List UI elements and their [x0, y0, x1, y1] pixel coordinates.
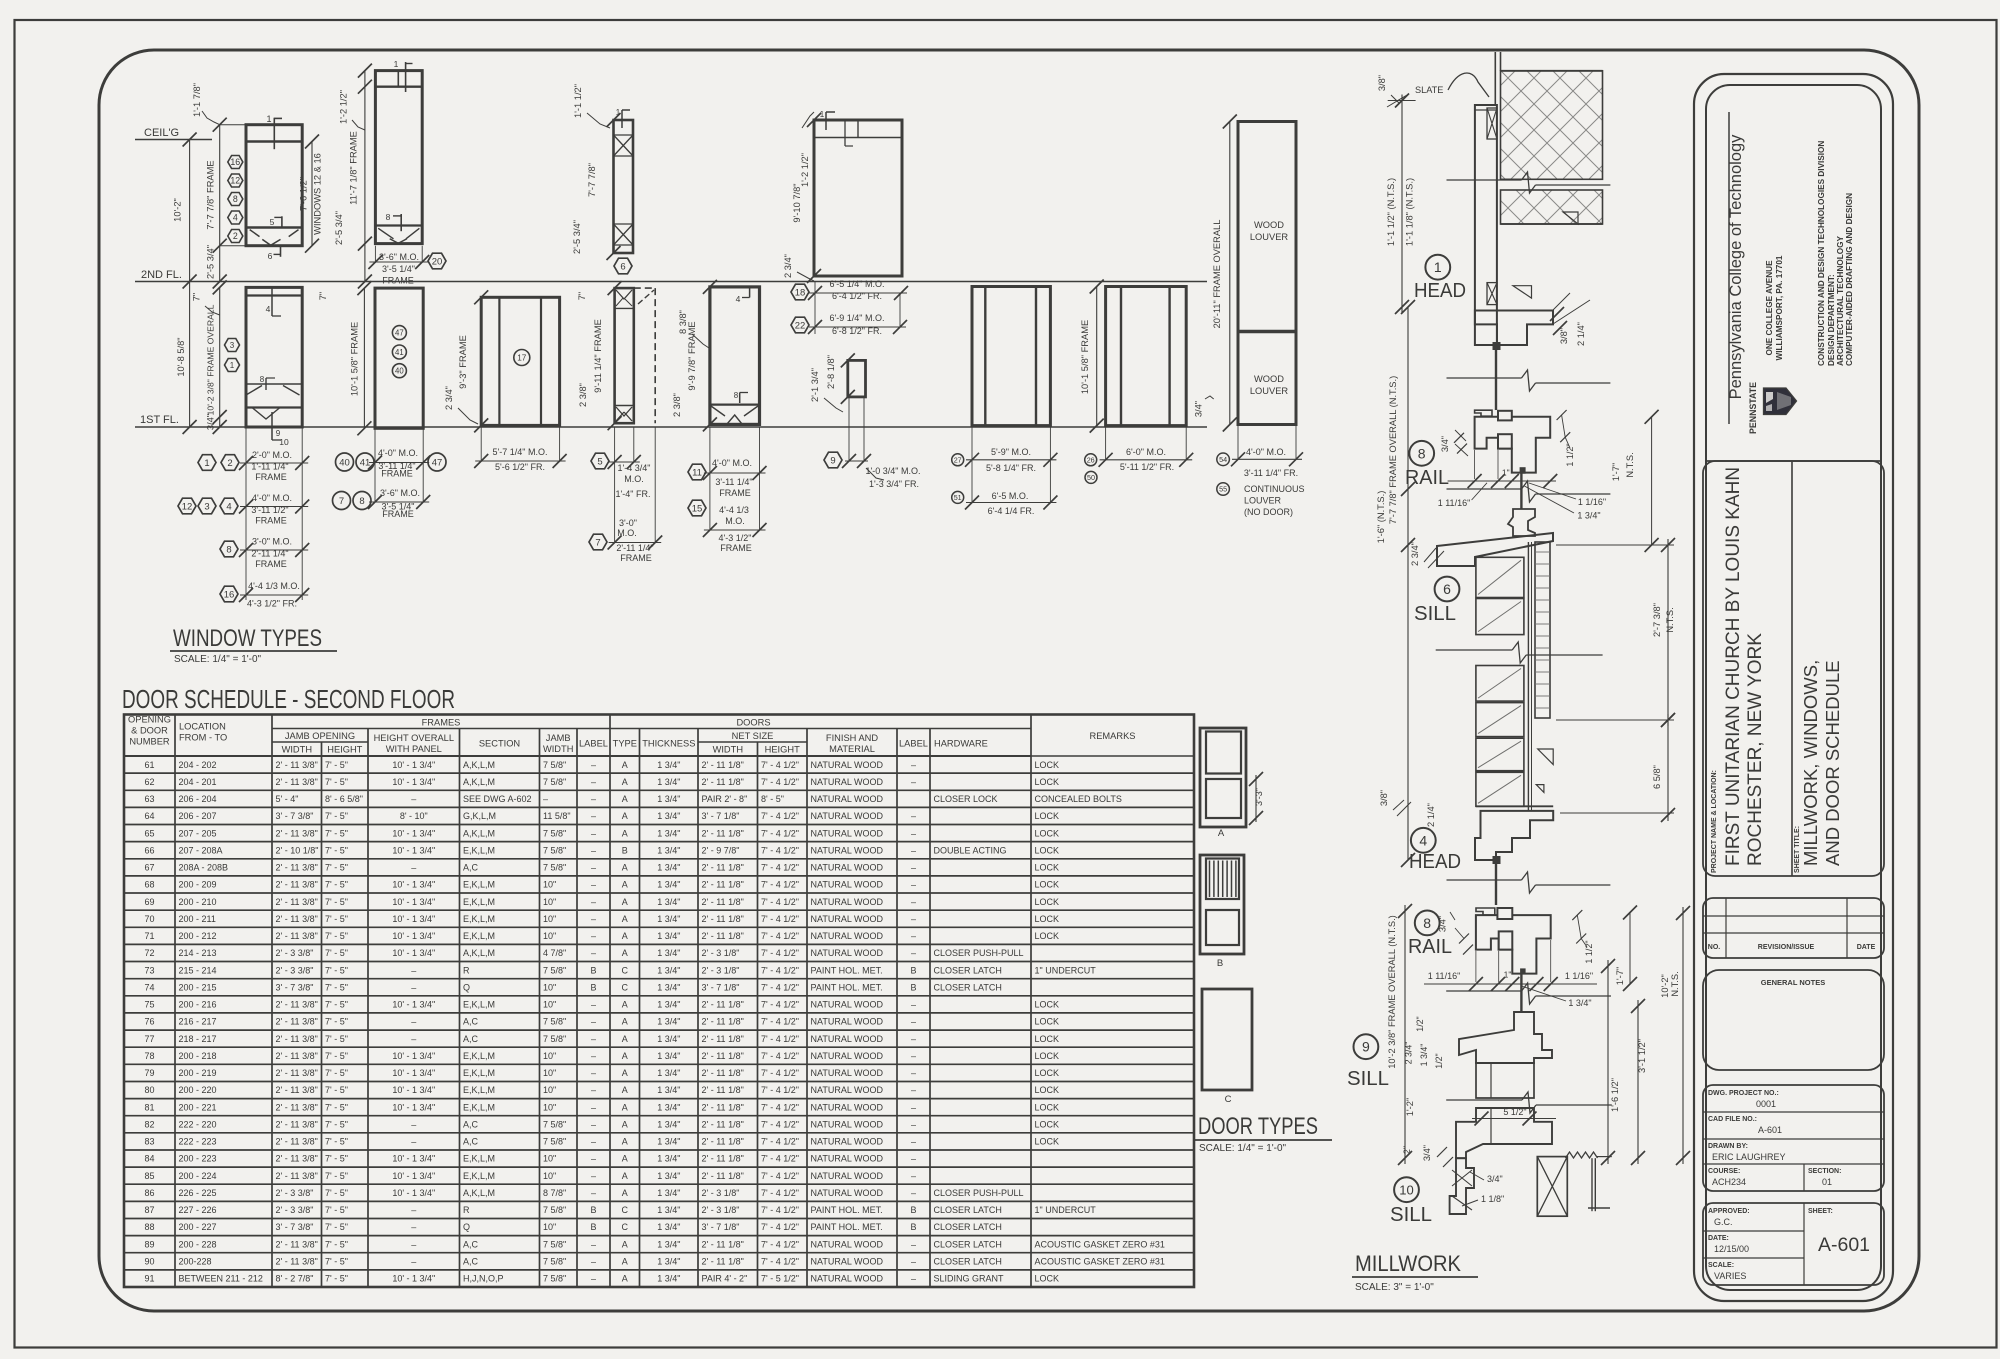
svg-text:2' - 11 3/8": 2' - 11 3/8" [276, 1154, 318, 1164]
svg-text:200-228: 200-228 [179, 1257, 212, 1267]
svg-text:1 3/4": 1 3/4" [657, 1051, 680, 1061]
svg-text:2' - 11 1/8": 2' - 11 1/8" [702, 777, 744, 787]
svg-text:APPROVED:: APPROVED: [1708, 1208, 1750, 1215]
svg-text:E,K,L,M: E,K,L,M [463, 880, 495, 890]
svg-text:–: – [411, 863, 416, 873]
svg-text:CONSTRUCTION AND DESIGN TECHNO: CONSTRUCTION AND DESIGN TECHNOLOGIES DIV… [1817, 141, 1826, 366]
svg-text:B: B [590, 1222, 596, 1232]
svg-text:77: 77 [144, 1034, 154, 1044]
svg-text:4'-0" M.O.: 4'-0" M.O. [252, 493, 292, 503]
svg-text:2'-11 1/4": 2'-11 1/4" [616, 543, 653, 553]
svg-text:FROM - TO: FROM - TO [179, 733, 227, 743]
svg-text:1'-2 1/2": 1'-2 1/2" [339, 90, 349, 124]
svg-text:–: – [591, 863, 596, 873]
svg-text:2' - 11 1/8": 2' - 11 1/8" [702, 1068, 744, 1078]
svg-text:6'-0" M.O.: 6'-0" M.O. [1126, 447, 1166, 457]
svg-text:2' - 11 3/8": 2' - 11 3/8" [276, 1017, 318, 1027]
svg-text:9'-11 1/4" FRAME: 9'-11 1/4" FRAME [593, 319, 603, 393]
svg-text:10' - 1 3/4": 10' - 1 3/4" [392, 845, 435, 855]
svg-text:PAINT HOL. MET.: PAINT HOL. MET. [811, 965, 883, 975]
svg-text:A,C: A,C [463, 1120, 479, 1130]
svg-text:3: 3 [230, 341, 235, 350]
svg-text:2' - 10 1/8": 2' - 10 1/8" [276, 845, 319, 855]
svg-text:1 3/4": 1 3/4" [657, 777, 680, 787]
svg-text:8: 8 [734, 391, 739, 400]
svg-text:16: 16 [224, 589, 235, 600]
svg-text:LOCK: LOCK [1035, 1120, 1060, 1130]
svg-text:ACOUSTIC GASKET ZERO #31: ACOUSTIC GASKET ZERO #31 [1035, 1257, 1165, 1267]
svg-text:7' - 5": 7' - 5" [325, 777, 348, 787]
svg-text:NATURAL WOOD: NATURAL WOOD [811, 1274, 884, 1284]
svg-text:–: – [591, 811, 596, 821]
svg-text:N.T.S.: N.T.S. [1665, 607, 1675, 632]
svg-text:3/8": 3/8" [1377, 75, 1387, 91]
svg-text:8: 8 [1423, 915, 1431, 931]
svg-text:10: 10 [279, 437, 289, 447]
svg-text:HEIGHT: HEIGHT [327, 745, 362, 755]
svg-text:A: A [622, 1257, 628, 1267]
svg-text:2' - 11 3/8": 2' - 11 3/8" [276, 1051, 318, 1061]
svg-text:N.T.S.: N.T.S. [1670, 971, 1680, 996]
svg-text:1" UNDERCUT: 1" UNDERCUT [1035, 1205, 1097, 1215]
svg-text:5'-11 1/2" FR.: 5'-11 1/2" FR. [1120, 462, 1174, 472]
svg-text:2' - 11 3/8": 2' - 11 3/8" [276, 1000, 318, 1010]
svg-text:4: 4 [1419, 832, 1427, 848]
svg-text:2' - 11 1/8": 2' - 11 1/8" [702, 1051, 744, 1061]
svg-text:1 3/4": 1 3/4" [657, 1120, 680, 1130]
svg-text:NATURAL WOOD: NATURAL WOOD [811, 897, 884, 907]
svg-text:2' - 11 1/8": 2' - 11 1/8" [702, 863, 744, 873]
svg-text:62: 62 [144, 777, 154, 787]
svg-text:B: B [910, 1205, 916, 1215]
svg-text:A: A [622, 1171, 628, 1181]
svg-text:7' - 5": 7' - 5" [325, 1239, 348, 1249]
svg-text:A-601: A-601 [1818, 1234, 1870, 1256]
svg-text:10' - 1 3/4": 10' - 1 3/4" [392, 931, 435, 941]
svg-text:–: – [911, 1239, 916, 1249]
svg-text:WIDTH: WIDTH [543, 744, 573, 754]
svg-text:16: 16 [230, 157, 240, 167]
svg-text:A: A [622, 794, 628, 804]
svg-text:–: – [911, 1274, 916, 1284]
svg-text:2 3/4": 2 3/4" [1410, 542, 1420, 566]
svg-text:10' - 1 3/4": 10' - 1 3/4" [392, 880, 435, 890]
svg-text:2' - 11 1/8": 2' - 11 1/8" [702, 1257, 744, 1267]
svg-text:8: 8 [260, 375, 265, 384]
svg-text:7' - 4 1/2": 7' - 4 1/2" [761, 1120, 799, 1130]
svg-text:6: 6 [620, 261, 625, 272]
svg-text:LOCK: LOCK [1035, 760, 1060, 770]
svg-text:20'-11" FRAME OVERALL: 20'-11" FRAME OVERALL [1212, 220, 1222, 329]
svg-text:7 5/8": 7 5/8" [543, 1137, 566, 1147]
svg-text:64: 64 [144, 811, 154, 821]
svg-text:C: C [1225, 1094, 1232, 1105]
svg-text:C: C [622, 965, 629, 975]
svg-text:RAIL: RAIL [1408, 936, 1452, 958]
svg-text:3/4": 3/4" [1487, 1174, 1503, 1184]
svg-text:7' - 4 1/2": 7' - 4 1/2" [761, 1137, 799, 1147]
svg-text:7' - 4 1/2": 7' - 4 1/2" [761, 1085, 799, 1095]
svg-text:NATURAL WOOD: NATURAL WOOD [811, 863, 884, 873]
svg-text:208A - 208B: 208A - 208B [179, 863, 229, 873]
svg-text:6: 6 [1443, 581, 1451, 597]
svg-text:FRAME: FRAME [382, 509, 414, 519]
svg-text:67: 67 [144, 863, 154, 873]
svg-text:5 1/2": 5 1/2" [1503, 1107, 1526, 1117]
svg-text:2'-8 1/8": 2'-8 1/8" [826, 355, 836, 389]
svg-text:–: – [591, 1000, 596, 1010]
svg-text:VARIES: VARIES [1714, 1271, 1746, 1281]
svg-text:2'-1 3/4": 2'-1 3/4" [810, 368, 820, 402]
svg-text:7 5/8": 7 5/8" [543, 845, 566, 855]
svg-text:3/4": 3/4" [1438, 916, 1448, 932]
svg-text:NO.: NO. [1708, 944, 1721, 951]
svg-text:7' - 5": 7' - 5" [325, 931, 348, 941]
svg-text:10'-8 5/8": 10'-8 5/8" [176, 337, 186, 376]
svg-text:LOCK: LOCK [1035, 880, 1060, 890]
svg-text:–: – [591, 1257, 596, 1267]
svg-text:1 3/4": 1 3/4" [657, 880, 680, 890]
svg-text:2' - 11 1/8": 2' - 11 1/8" [702, 1085, 744, 1095]
svg-text:FINISH AND: FINISH AND [826, 733, 878, 743]
svg-text:DRAWN BY:: DRAWN BY: [1708, 1143, 1748, 1150]
svg-text:7 5/8": 7 5/8" [543, 760, 566, 770]
svg-text:2' - 11 3/8": 2' - 11 3/8" [276, 1120, 318, 1130]
svg-text:–: – [591, 1274, 596, 1284]
svg-text:2' - 11 1/8": 2' - 11 1/8" [702, 1017, 744, 1027]
svg-text:NATURAL WOOD: NATURAL WOOD [811, 914, 884, 924]
svg-text:63: 63 [144, 794, 154, 804]
svg-text:0001: 0001 [1756, 1099, 1776, 1109]
svg-text:–: – [411, 982, 416, 992]
svg-text:5: 5 [270, 217, 275, 227]
svg-text:NATURAL WOOD: NATURAL WOOD [811, 777, 884, 787]
svg-text:7' - 5": 7' - 5" [325, 760, 348, 770]
svg-text:7' - 4 1/2": 7' - 4 1/2" [761, 897, 799, 907]
svg-text:1'-2": 1'-2" [1405, 1098, 1415, 1117]
svg-text:89: 89 [144, 1239, 154, 1249]
svg-text:A: A [622, 880, 628, 890]
svg-text:1 3/4": 1 3/4" [657, 1068, 680, 1078]
svg-text:E,K,L,M: E,K,L,M [463, 1154, 495, 1164]
svg-text:Q: Q [463, 982, 470, 992]
svg-text:FRAME: FRAME [620, 553, 652, 563]
svg-text:8' - 10": 8' - 10" [400, 811, 428, 821]
svg-text:10' - 1 3/4": 10' - 1 3/4" [392, 828, 435, 838]
svg-text:5'-7 1/4" M.O.: 5'-7 1/4" M.O. [493, 447, 548, 457]
svg-text:2' - 11 3/8": 2' - 11 3/8" [276, 863, 318, 873]
svg-text:1 1/2": 1 1/2" [1584, 940, 1594, 963]
svg-text:204 - 202: 204 - 202 [179, 760, 217, 770]
svg-text:9: 9 [830, 455, 835, 466]
svg-text:8: 8 [233, 194, 238, 204]
svg-text:1 3/4": 1 3/4" [657, 845, 680, 855]
svg-text:7 5/8": 7 5/8" [543, 1205, 566, 1215]
svg-text:A,K,L,M: A,K,L,M [463, 948, 495, 958]
svg-text:–: – [911, 1000, 916, 1010]
svg-text:7": 7" [577, 292, 587, 300]
svg-text:78: 78 [144, 1051, 154, 1061]
svg-text:10' - 1 3/4": 10' - 1 3/4" [392, 1051, 435, 1061]
svg-text:86: 86 [144, 1188, 154, 1198]
svg-text:DESIGN DEPARTMENT:: DESIGN DEPARTMENT: [1827, 274, 1836, 366]
svg-text:227 - 226: 227 - 226 [179, 1205, 217, 1215]
svg-text:–: – [911, 777, 916, 787]
svg-text:PAINT HOL. MET.: PAINT HOL. MET. [811, 982, 883, 992]
svg-text:–: – [543, 794, 548, 804]
svg-text:–: – [911, 1017, 916, 1027]
svg-text:7' - 4 1/2": 7' - 4 1/2" [761, 1239, 799, 1249]
svg-text:1'-1 1/2" (N.T.S.): 1'-1 1/2" (N.T.S.) [1386, 178, 1396, 246]
svg-text:A,C: A,C [463, 1017, 479, 1027]
svg-text:7' - 5": 7' - 5" [325, 1274, 348, 1284]
svg-text:WIDTH: WIDTH [282, 745, 312, 755]
svg-text:7' - 5": 7' - 5" [325, 1222, 348, 1232]
svg-text:E,K,L,M: E,K,L,M [463, 897, 495, 907]
svg-text:2 3/8": 2 3/8" [578, 383, 588, 407]
svg-text:7' - 5": 7' - 5" [325, 1120, 348, 1130]
svg-text:4'-3 1/2" FR.: 4'-3 1/2" FR. [247, 599, 297, 609]
svg-text:1: 1 [1434, 259, 1442, 275]
svg-text:A: A [622, 811, 628, 821]
svg-text:A: A [622, 931, 628, 941]
svg-text:47: 47 [432, 457, 443, 468]
svg-text:68: 68 [144, 880, 154, 890]
svg-text:A,C: A,C [463, 1034, 479, 1044]
svg-text:–: – [591, 1171, 596, 1181]
svg-text:–: – [911, 1068, 916, 1078]
svg-text:A: A [622, 1085, 628, 1095]
svg-text:1'-11 1/4": 1'-11 1/4" [251, 462, 288, 472]
svg-text:A: A [622, 1188, 628, 1198]
svg-text:1 11/16": 1 11/16" [1428, 971, 1461, 981]
svg-text:5: 5 [597, 456, 602, 467]
svg-text:1'-4 3/4": 1'-4 3/4" [618, 463, 651, 473]
svg-text:7' - 4 1/2": 7' - 4 1/2" [761, 1188, 799, 1198]
svg-text:SILL: SILL [1347, 1068, 1389, 1090]
svg-text:LOCK: LOCK [1035, 777, 1060, 787]
svg-text:–: – [591, 880, 596, 890]
svg-text:2: 2 [233, 231, 238, 241]
svg-text:7": 7" [318, 292, 328, 300]
svg-text:40: 40 [395, 367, 404, 376]
svg-text:–: – [911, 1188, 916, 1198]
svg-text:7' - 4 1/2": 7' - 4 1/2" [761, 1154, 799, 1164]
svg-text:1 3/4": 1 3/4" [657, 931, 680, 941]
svg-text:–: – [911, 811, 916, 821]
svg-text:7' - 4 1/2": 7' - 4 1/2" [761, 965, 799, 975]
svg-text:200 - 215: 200 - 215 [179, 982, 217, 992]
svg-text:FRAME: FRAME [255, 559, 287, 569]
svg-text:2' - 3 3/8": 2' - 3 3/8" [276, 965, 314, 975]
svg-text:A: A [622, 1068, 628, 1078]
svg-text:7' - 4 1/2": 7' - 4 1/2" [761, 845, 799, 855]
svg-text:51: 51 [954, 493, 962, 502]
svg-text:–: – [911, 1154, 916, 1164]
svg-text:40: 40 [339, 457, 350, 468]
svg-text:FRAME: FRAME [719, 488, 751, 498]
svg-text:–: – [411, 1257, 416, 1267]
svg-text:2' - 11 3/8": 2' - 11 3/8" [276, 914, 318, 924]
svg-text:10' - 1 3/4": 10' - 1 3/4" [392, 914, 435, 924]
svg-text:A,C: A,C [463, 1257, 479, 1267]
svg-text:AND DOOR SCHEDULE: AND DOOR SCHEDULE [1822, 660, 1843, 866]
svg-text:2' - 11 3/8": 2' - 11 3/8" [276, 931, 318, 941]
svg-text:7' - 5": 7' - 5" [325, 914, 348, 924]
svg-text:7'-7 7/8" FRAME: 7'-7 7/8" FRAME [205, 160, 215, 229]
svg-text:1'-7": 1'-7" [1615, 967, 1625, 986]
svg-text:LOUVER: LOUVER [1244, 496, 1282, 506]
svg-text:–: – [911, 880, 916, 890]
svg-text:JAMB: JAMB [546, 733, 571, 743]
svg-text:–: – [411, 1205, 416, 1215]
svg-text:CONCEALED BOLTS: CONCEALED BOLTS [1035, 794, 1122, 804]
svg-text:DWG. PROJECT NO.:: DWG. PROJECT NO.: [1708, 1090, 1779, 1097]
svg-text:200 - 211: 200 - 211 [179, 914, 216, 924]
svg-text:2 3/4": 2 3/4" [783, 254, 793, 278]
svg-text:M.O.: M.O. [624, 474, 644, 484]
svg-text:2' - 3 1/8": 2' - 3 1/8" [702, 1188, 740, 1198]
svg-text:2' - 11 1/8": 2' - 11 1/8" [702, 1102, 744, 1112]
svg-text:COURSE:: COURSE: [1708, 1168, 1740, 1175]
svg-text:SECTION:: SECTION: [1808, 1168, 1841, 1175]
svg-text:6'-5 M.O.: 6'-5 M.O. [992, 491, 1029, 501]
svg-text:7'-7 7/8": 7'-7 7/8" [587, 163, 597, 197]
svg-text:2' - 11 3/8": 2' - 11 3/8" [276, 777, 318, 787]
svg-text:LOUVER: LOUVER [1250, 386, 1289, 396]
svg-text:PENNSTATE: PENNSTATE [1748, 382, 1758, 434]
svg-text:–: – [411, 1137, 416, 1147]
svg-text:222 - 223: 222 - 223 [179, 1137, 217, 1147]
svg-text:1": 1" [1504, 970, 1512, 980]
svg-text:CEIL'G: CEIL'G [144, 127, 179, 139]
svg-text:2 1/4": 2 1/4" [1576, 322, 1586, 346]
svg-text:PAIR 2' - 8": PAIR 2' - 8" [702, 794, 748, 804]
svg-text:200 - 218: 200 - 218 [179, 1051, 217, 1061]
svg-text:7' - 4 1/2": 7' - 4 1/2" [761, 1171, 799, 1181]
svg-text:7' - 4 1/2": 7' - 4 1/2" [761, 948, 799, 958]
svg-text:C: C [622, 1205, 629, 1215]
svg-text:4: 4 [226, 501, 231, 512]
svg-text:3'-0": 3'-0" [619, 518, 637, 528]
svg-text:10: 10 [1399, 1182, 1413, 1197]
svg-text:HEAD: HEAD [1414, 280, 1466, 302]
svg-text:(NO DOOR): (NO DOOR) [1244, 507, 1293, 517]
svg-text:2' - 11 1/8": 2' - 11 1/8" [702, 931, 744, 941]
svg-text:1 3/4": 1 3/4" [657, 1188, 680, 1198]
svg-text:A: A [622, 1102, 628, 1112]
svg-text:1 3/4": 1 3/4" [657, 1017, 680, 1027]
svg-text:2'-5 3/4": 2'-5 3/4" [205, 245, 215, 279]
svg-text:10'-2": 10'-2" [173, 198, 183, 222]
svg-text:1 3/4": 1 3/4" [657, 1000, 680, 1010]
svg-text:LOCK: LOCK [1035, 914, 1060, 924]
svg-text:1 3/4": 1 3/4" [657, 1085, 680, 1095]
svg-text:5'-8 1/4" FR.: 5'-8 1/4" FR. [986, 463, 1036, 473]
svg-text:81: 81 [144, 1102, 154, 1112]
svg-text:–: – [591, 760, 596, 770]
svg-text:1 3/4": 1 3/4" [657, 811, 680, 821]
svg-text:200 - 209: 200 - 209 [179, 880, 217, 890]
svg-text:7 5/8": 7 5/8" [543, 965, 566, 975]
svg-text:4: 4 [736, 294, 741, 304]
svg-text:A,K,L,M: A,K,L,M [463, 777, 495, 787]
svg-text:–: – [911, 1102, 916, 1112]
svg-text:11'-7 1/8" FRAME: 11'-7 1/8" FRAME [348, 131, 358, 205]
svg-text:A: A [622, 948, 628, 958]
svg-text:4'-0" M.O.: 4'-0" M.O. [378, 448, 418, 458]
svg-text:–: – [911, 897, 916, 907]
svg-text:MATERIAL: MATERIAL [829, 744, 875, 754]
svg-text:–: – [411, 1017, 416, 1027]
svg-text:3/8": 3/8" [1379, 790, 1389, 806]
svg-text:3'-6" M.O.: 3'-6" M.O. [380, 488, 420, 498]
svg-text:206 - 207: 206 - 207 [179, 811, 217, 821]
svg-text:3' - 7 3/8": 3' - 7 3/8" [276, 811, 314, 821]
svg-text:7' - 4 1/2": 7' - 4 1/2" [761, 1017, 799, 1027]
svg-text:2ND FL.: 2ND FL. [141, 269, 182, 281]
svg-text:7 5/8": 7 5/8" [543, 1257, 566, 1267]
svg-text:75: 75 [144, 1000, 154, 1010]
svg-text:1 3/4": 1 3/4" [657, 863, 680, 873]
svg-text:91: 91 [144, 1274, 154, 1284]
svg-text:LOUVER: LOUVER [1250, 232, 1289, 242]
svg-text:ERIC LAUGHREY: ERIC LAUGHREY [1712, 1152, 1786, 1162]
svg-text:200 - 228: 200 - 228 [179, 1239, 217, 1249]
svg-text:10": 10" [543, 1068, 556, 1078]
svg-text:9'-9 7/8" FRAME: 9'-9 7/8" FRAME [687, 321, 697, 390]
svg-text:HEIGHT: HEIGHT [765, 745, 800, 755]
svg-text:2'-0" M.O.: 2'-0" M.O. [252, 450, 292, 460]
svg-text:4 7/8": 4 7/8" [543, 948, 566, 958]
svg-text:OPENING: OPENING [128, 715, 171, 725]
svg-text:–: – [411, 965, 416, 975]
svg-text:2' - 11 3/8": 2' - 11 3/8" [276, 897, 318, 907]
svg-text:7' - 4 1/2": 7' - 4 1/2" [761, 1205, 799, 1215]
svg-text:200 - 224: 200 - 224 [179, 1171, 217, 1181]
svg-text:FRAME: FRAME [720, 543, 752, 553]
svg-text:226 - 225: 226 - 225 [179, 1188, 217, 1198]
svg-text:2' - 11 3/8": 2' - 11 3/8" [276, 760, 318, 770]
svg-text:54: 54 [1219, 455, 1227, 464]
svg-text:SCALE: 1/4" = 1'-0": SCALE: 1/4" = 1'-0" [174, 654, 262, 665]
svg-text:E,K,L,M: E,K,L,M [463, 1102, 495, 1112]
svg-text:LABEL: LABEL [899, 739, 928, 749]
svg-text:3' - 7 1/8": 3' - 7 1/8" [702, 811, 740, 821]
svg-text:7' - 5": 7' - 5" [325, 1051, 348, 1061]
svg-text:7' - 5 1/2": 7' - 5 1/2" [761, 1274, 799, 1284]
svg-text:–: – [911, 1137, 916, 1147]
svg-text:LOCK: LOCK [1035, 863, 1060, 873]
svg-text:69: 69 [144, 897, 154, 907]
svg-text:–: – [911, 1034, 916, 1044]
svg-text:PROJECT NAME & LOCATION:: PROJECT NAME & LOCATION: [1711, 770, 1718, 873]
svg-text:2' - 11 3/8": 2' - 11 3/8" [276, 1257, 318, 1267]
svg-text:–: – [911, 948, 916, 958]
svg-text:7' - 4 1/2": 7' - 4 1/2" [761, 811, 799, 821]
svg-text:6'-4 1/2" FR.: 6'-4 1/2" FR. [832, 291, 882, 301]
svg-text:7' - 4 1/2": 7' - 4 1/2" [761, 914, 799, 924]
svg-text:10' - 1 3/4": 10' - 1 3/4" [392, 1000, 435, 1010]
svg-text:4: 4 [266, 304, 271, 314]
svg-text:200 - 216: 200 - 216 [179, 1000, 217, 1010]
svg-text:200 - 210: 200 - 210 [179, 897, 217, 907]
svg-text:3/4": 3/4" [1440, 436, 1450, 452]
svg-text:2' - 3 3/8": 2' - 3 3/8" [276, 948, 314, 958]
svg-text:CLOSER LATCH: CLOSER LATCH [934, 965, 1002, 975]
svg-text:SECTION: SECTION [479, 739, 520, 749]
svg-text:10'-2 3/8" FRAME OVERALL: 10'-2 3/8" FRAME OVERALL [205, 304, 215, 415]
